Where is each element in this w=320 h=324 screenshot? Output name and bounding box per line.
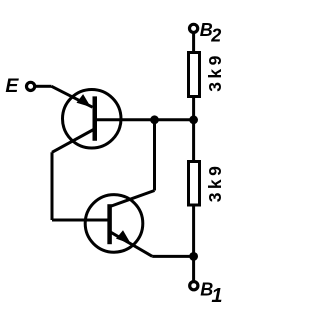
svg-text:2: 2: [210, 25, 221, 45]
svg-text:1: 1: [211, 285, 222, 307]
svg-text:3k9: 3k9: [205, 163, 225, 202]
svg-text:E: E: [5, 75, 19, 97]
svg-text:3k9: 3k9: [205, 52, 225, 91]
